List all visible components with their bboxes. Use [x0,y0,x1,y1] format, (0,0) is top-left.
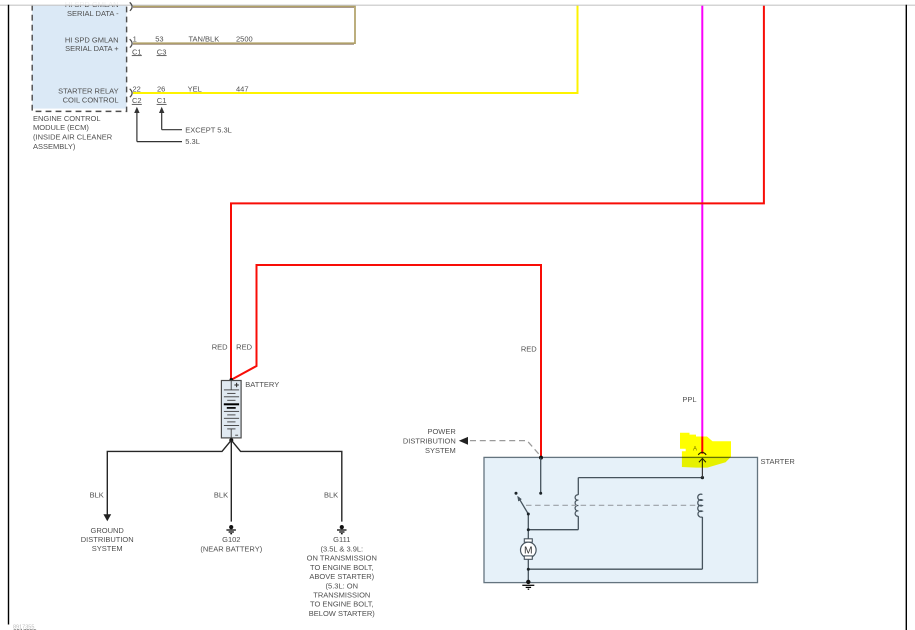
svg-text:(3.5L & 3.9L:: (3.5L & 3.9L: [320,545,363,554]
svg-text:(NEAR BATTERY): (NEAR BATTERY) [200,545,262,554]
svg-text:TAN/BLK: TAN/BLK [189,35,220,44]
svg-text:SYSTEM: SYSTEM [92,544,123,553]
svg-text:BATTERY: BATTERY [245,380,279,389]
svg-text:BELOW STARTER): BELOW STARTER) [309,609,375,618]
svg-text:TRANSMISSION: TRANSMISSION [313,591,370,600]
svg-text:YEL: YEL [188,84,202,93]
svg-text:(5.3L: ON: (5.3L: ON [326,581,359,590]
svg-text:RED: RED [521,344,537,353]
svg-text:BLK: BLK [214,491,228,500]
svg-text:SYSTEM: SYSTEM [425,446,456,455]
svg-text:SERIAL DATA +: SERIAL DATA + [65,44,119,53]
svg-text:BLK: BLK [90,490,104,499]
svg-text:C1: C1 [157,96,167,105]
svg-text:BLK: BLK [324,491,338,500]
svg-text:G102: G102 [222,535,240,544]
svg-text:STARTER RELAY: STARTER RELAY [58,87,118,96]
svg-text:PPL: PPL [682,395,696,404]
svg-text:M: M [524,546,533,557]
svg-text:DISTRIBUTION: DISTRIBUTION [403,437,456,446]
svg-text:26: 26 [157,84,165,93]
svg-text:MODULE (ECM): MODULE (ECM) [33,123,89,132]
svg-text:TO ENGINE BOLT,: TO ENGINE BOLT, [310,563,374,572]
svg-text:TO ENGINE BOLT,: TO ENGINE BOLT, [310,600,374,609]
svg-text:POWER: POWER [427,427,456,436]
svg-text:SERIAL DATA -: SERIAL DATA - [67,9,119,18]
svg-text:ABOVE STARTER): ABOVE STARTER) [309,572,374,581]
svg-text:ASSEMBLY): ASSEMBLY) [33,142,76,151]
svg-text:C3: C3 [157,47,167,56]
svg-text:447: 447 [236,84,249,93]
svg-text:RED: RED [212,343,228,352]
svg-text:G111: G111 [333,535,350,544]
svg-text:2500: 2500 [236,35,253,44]
svg-text:COIL CONTROL: COIL CONTROL [63,95,119,104]
svg-text:5.3L: 5.3L [185,137,200,146]
svg-text:STARTER: STARTER [761,457,796,466]
svg-text:22: 22 [133,84,141,93]
svg-text:C2: C2 [132,96,142,105]
svg-text:ENGINE CONTROL: ENGINE CONTROL [33,114,101,123]
svg-text:GROUND: GROUND [91,526,125,535]
svg-text:ON TRANSMISSION: ON TRANSMISSION [307,554,377,563]
svg-text:DISTRIBUTION: DISTRIBUTION [81,535,134,544]
svg-text:53: 53 [155,35,163,44]
svg-text:(INSIDE AIR CLEANER: (INSIDE AIR CLEANER [33,133,113,142]
svg-text:1: 1 [133,35,137,44]
svg-text:C1: C1 [132,47,142,56]
svg-text:EXCEPT 5.3L: EXCEPT 5.3L [185,125,232,134]
svg-text:RED: RED [236,343,252,352]
